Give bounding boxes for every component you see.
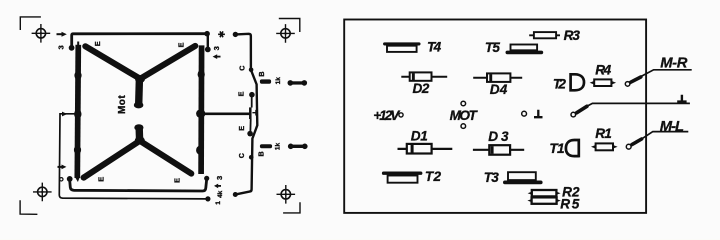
svg-text:D1: D1 [411, 129, 428, 144]
arrow marker top-left [57, 33, 62, 35]
node motor bottom junction [135, 137, 145, 145]
wire branch to emitters [202, 112, 250, 115]
board outline [344, 20, 646, 213]
pad B lower [260, 144, 272, 148]
label D bottom-left [60, 178, 63, 181]
fiducial crosshair top-right [276, 24, 295, 43]
wire stub to pad [207, 35, 209, 48]
svg-text:E: E [93, 41, 102, 46]
pad motor top [134, 102, 144, 109]
pad right section bottom [233, 192, 238, 197]
pad motor bottom [134, 124, 143, 131]
wire diagonal upper-left [85, 46, 140, 79]
diode D1 [398, 148, 453, 150]
svg-text:3: 3 [56, 45, 65, 49]
svg-text:T2: T2 [425, 169, 442, 184]
pad oval right 1 [198, 70, 205, 79]
wire diagonal lower-left [84, 141, 140, 178]
corner bracket top-right [279, 19, 300, 33]
svg-text:Mot: Mot [117, 95, 128, 114]
pad top trace right end [204, 31, 210, 37]
node T-bar [249, 107, 252, 119]
diode D4 [473, 77, 522, 79]
pad 3 top-left [69, 45, 75, 51]
node C lower [249, 155, 254, 160]
svg-text:B: B [257, 71, 266, 76]
svg-text:B: B [256, 151, 265, 156]
ground symbol right [677, 95, 686, 102]
resistor R4 [594, 79, 611, 86]
svg-text:E: E [237, 126, 246, 131]
node motor top junction [135, 75, 145, 83]
wire outer perimeter trace [59, 114, 206, 199]
label *3 top-right [218, 31, 225, 37]
svg-text:3: 3 [215, 176, 224, 180]
pad inner bottom right [204, 176, 209, 181]
transistor T4 package [385, 42, 419, 45]
svg-text:MOT: MOT [450, 108, 479, 123]
arrow marker bottom-left [58, 166, 62, 168]
wire diagonal lower-right [140, 141, 192, 174]
corner bracket bottom-left [20, 200, 37, 214]
diode D2 [401, 76, 447, 78]
pad oval left 3 [74, 146, 81, 155]
node terminal M-L [626, 144, 631, 149]
fiducial crosshair top-left [32, 24, 51, 43]
svg-text:C: C [237, 65, 246, 70]
svg-text:T2: T2 [553, 77, 566, 92]
pad lower-left [81, 175, 87, 181]
pad oval right junction [196, 109, 205, 118]
corner bracket bottom-right [283, 202, 300, 213]
svg-text:+12V: +12V [373, 108, 401, 123]
wire motor top stub [135, 79, 143, 105]
svg-text:E: E [176, 42, 185, 47]
node terminal MOT bottom [461, 124, 466, 129]
transistor T2 bottom package [384, 171, 421, 174]
pad oval left 1 [74, 71, 81, 80]
arrow marker right [216, 56, 220, 58]
wire inner bottom trace [70, 180, 207, 191]
transistor T3 package [508, 172, 536, 180]
svg-text:D3: D3 [488, 129, 509, 144]
resistor R1 [596, 143, 613, 150]
svg-text:T1: T1 [549, 141, 564, 156]
wire right supply trace [198, 45, 204, 174]
svg-text:T3: T3 [484, 170, 500, 185]
wire E upper stub [251, 97, 253, 108]
wire M-R [631, 77, 641, 82]
pad oval right 2 [196, 146, 203, 155]
svg-text:E: E [173, 178, 182, 183]
svg-text:R5: R5 [560, 197, 579, 212]
pad right section top [233, 32, 238, 37]
fiducial crosshair bottom-left [33, 183, 52, 202]
arrow marker bottom-right [218, 185, 222, 187]
wire left supply trace [77, 45, 78, 178]
label gnd rotated [252, 110, 256, 116]
pad M-L dumbbell [288, 144, 308, 150]
transistor T1 [566, 139, 579, 158]
svg-text:T5: T5 [485, 40, 500, 55]
wire ground [571, 112, 576, 117]
pad 3 top-right [205, 47, 211, 53]
wire diagonal upper-right [140, 46, 195, 79]
node C upper [249, 68, 254, 73]
svg-text:M-L: M-L [660, 119, 684, 135]
svg-text:D4: D4 [490, 82, 508, 97]
transistor T5 package [511, 45, 538, 51]
svg-text:3: 3 [212, 46, 221, 50]
pad D bottom-left [67, 176, 73, 182]
svg-text:M-R: M-R [660, 55, 688, 71]
ground symbol center [534, 110, 543, 118]
svg-text:R3: R3 [564, 28, 581, 43]
svg-text:4k: 4k [217, 190, 224, 198]
svg-text:D2: D2 [413, 81, 430, 96]
wire top bus trace [72, 34, 207, 46]
svg-text:C: C [237, 153, 246, 158]
fiducial crosshair bottom-right [277, 185, 296, 204]
pad oval left 2 [74, 109, 81, 118]
node terminal +12V [399, 113, 403, 117]
svg-text:1k: 1k [275, 143, 282, 151]
wire right section trace [236, 34, 257, 195]
arrow marker on perimeter [62, 112, 67, 117]
svg-text:1k: 1k [275, 77, 282, 85]
pad perimeter end [205, 196, 210, 201]
diode D3 [473, 149, 524, 151]
svg-text:1: 1 [215, 201, 222, 205]
svg-text:R4: R4 [595, 63, 611, 78]
svg-text:T4: T4 [427, 39, 442, 54]
wire E lower stub [249, 119, 251, 131]
transistor T2 [571, 73, 584, 92]
resistor R3 [529, 34, 560, 36]
wire motor bottom stub [135, 128, 143, 141]
pad B upper [260, 79, 271, 83]
pad E upper [249, 92, 255, 98]
corner bracket top-left [20, 17, 41, 30]
node terminal center [522, 111, 527, 116]
svg-text:R1: R1 [595, 126, 612, 141]
pad E lower [247, 131, 253, 137]
svg-text:E: E [236, 91, 245, 96]
node terminal MOT top [461, 101, 466, 106]
node terminal M-R [625, 82, 630, 87]
resistor R2 [532, 190, 557, 196]
resistor R5 [532, 197, 557, 203]
wire M-L [632, 139, 642, 145]
svg-text:E: E [96, 177, 105, 182]
pad M-R dumbbell [288, 80, 308, 86]
